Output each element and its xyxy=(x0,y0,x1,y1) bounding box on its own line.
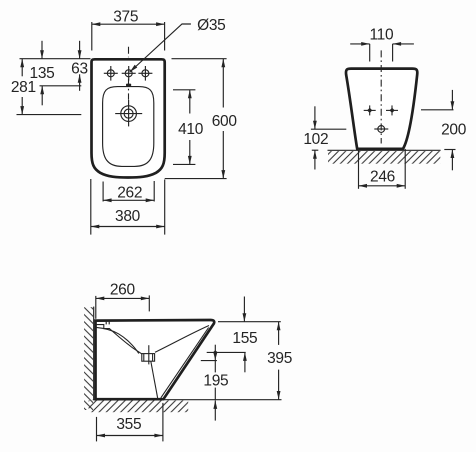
svg-text:Ø35: Ø35 xyxy=(197,17,225,34)
side view: drain trap xyxy=(142,354,155,362)
svg-text:102: 102 xyxy=(303,131,328,148)
side view: wall line xyxy=(93,307,95,401)
plan view: bidet body outline xyxy=(92,59,165,177)
front view: left fixing hole mark xyxy=(364,105,376,115)
dimension 260 xyxy=(96,295,150,318)
dimension 110 xyxy=(350,44,414,62)
svg-text:600: 600 xyxy=(212,113,238,130)
side view: ground hatching xyxy=(89,400,189,412)
plan view: left faucet hole xyxy=(104,66,118,81)
svg-text:410: 410 xyxy=(178,121,204,138)
side view: outlet line xyxy=(151,361,158,399)
plan view: basin top marker tick xyxy=(126,84,131,87)
dimension 410 xyxy=(173,90,195,165)
svg-text:110: 110 xyxy=(369,27,393,44)
dimension 102 xyxy=(311,106,346,169)
plan view: middle faucet hole xyxy=(122,66,136,81)
side view: wall hatching xyxy=(84,307,93,410)
dimension 375 xyxy=(92,22,165,51)
dimension 600 xyxy=(165,59,227,179)
side view: fixing hole lower level line xyxy=(201,360,217,362)
front view: ground hatching xyxy=(328,151,440,164)
svg-text:281: 281 xyxy=(11,79,36,96)
side view: ground line xyxy=(93,399,282,401)
extension line: 135 level xyxy=(40,85,82,87)
svg-text:262: 262 xyxy=(117,185,142,202)
front view: right fixing hole mark xyxy=(386,105,398,115)
plan view: inner basin outline xyxy=(103,87,154,167)
dimension 63 xyxy=(79,41,81,91)
front view: ground line xyxy=(328,149,441,151)
dimension 281 xyxy=(21,59,23,115)
dimension 380 xyxy=(91,179,165,235)
svg-text:395: 395 xyxy=(267,350,292,367)
dimension 262 xyxy=(103,181,154,202)
svg-text:200: 200 xyxy=(441,122,467,139)
dimension 195 xyxy=(214,388,216,421)
side view: lower basin curve xyxy=(96,327,139,353)
side view: front face inner line xyxy=(161,328,209,398)
plan view: vertical center line xyxy=(128,47,130,100)
side view: body outline xyxy=(96,320,215,399)
dimension 135 xyxy=(41,41,43,106)
dimension 246 xyxy=(359,149,406,189)
side view: rim profile and upper basin curve xyxy=(96,325,142,355)
svg-text:260: 260 xyxy=(110,281,136,298)
front view: drain circle xyxy=(374,126,388,133)
svg-text:246: 246 xyxy=(370,168,395,185)
front view: body outline xyxy=(346,69,417,149)
side view: basin front curve xyxy=(155,326,209,353)
front view: vertical center line xyxy=(380,50,382,143)
side view: faucet hole slot xyxy=(106,321,109,325)
extension line: plan top edge level xyxy=(20,58,91,60)
svg-text:195: 195 xyxy=(203,372,228,389)
svg-text:155: 155 xyxy=(232,330,257,347)
side view: drain center line xyxy=(148,345,150,364)
label Ø35 with leader xyxy=(130,24,191,72)
side view: front fixing hole mark xyxy=(207,345,246,373)
svg-text:63: 63 xyxy=(71,61,88,78)
svg-text:375: 375 xyxy=(113,9,138,26)
dimension 355 xyxy=(97,403,163,442)
dimension 200 xyxy=(421,90,456,170)
extension line: 281 level xyxy=(17,114,82,116)
dimension 395 xyxy=(278,322,280,400)
svg-text:355: 355 xyxy=(116,416,141,433)
extension line: side body top level xyxy=(218,321,281,323)
dimension 155 xyxy=(243,297,246,373)
svg-text:380: 380 xyxy=(115,208,141,225)
plan view: right faucet hole xyxy=(138,66,152,81)
plan view: drain with crosshair xyxy=(115,100,142,126)
